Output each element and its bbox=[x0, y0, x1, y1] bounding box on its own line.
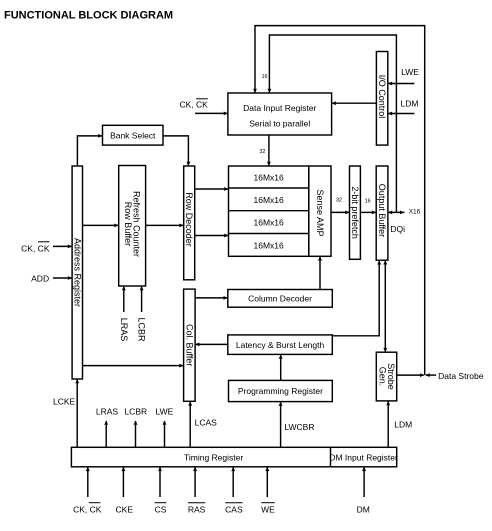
svg-text:CK, CK: CK, CK bbox=[179, 99, 208, 109]
svg-text:Serial to parallel: Serial to parallel bbox=[249, 119, 310, 129]
svg-text:LWE: LWE bbox=[156, 407, 174, 417]
svg-text:Data Strobe: Data Strobe bbox=[438, 371, 484, 381]
block Strobe Gen bbox=[376, 352, 396, 401]
wire Address Register to Col. Buffer bbox=[83, 364, 184, 368]
block Col. Buffer bbox=[184, 289, 196, 401]
wire Bank Select to Row Decoder bbox=[163, 136, 190, 166]
label WE bbox=[261, 503, 275, 515]
label CK, CK (data input clock) bbox=[179, 99, 208, 110]
wire DQi bidirectional bbox=[388, 211, 405, 215]
wire Row Decoder to array (lower) bbox=[195, 234, 229, 238]
svg-text:16: 16 bbox=[365, 199, 371, 205]
svg-text:16Mx16: 16Mx16 bbox=[254, 173, 285, 183]
svg-text:Timing Register: Timing Register bbox=[184, 453, 243, 463]
svg-text:CK, CK: CK, CK bbox=[73, 504, 102, 514]
label CK, CK (address register clock) bbox=[21, 242, 50, 254]
wire LCAS to Col. Buffer bbox=[188, 401, 192, 447]
wire Latency to Output Buffer bbox=[332, 260, 381, 336]
wire Sense AMP to 2-bit prefetch, 32-bit bbox=[331, 211, 350, 215]
wire CKE input bbox=[122, 467, 126, 497]
svg-text:CKE: CKE bbox=[116, 504, 134, 514]
block Column Decoder bbox=[228, 290, 332, 308]
svg-text:Gen.: Gen. bbox=[377, 367, 387, 387]
block Programming Register bbox=[229, 380, 333, 401]
wire ADD to Address Register bbox=[53, 276, 72, 280]
svg-text:DM: DM bbox=[357, 504, 370, 514]
wire LDM to Strobe Gen bbox=[386, 401, 390, 447]
wire outer DQ loop (Data Strobe to Data Input Register) bbox=[253, 26, 425, 375]
wire Latency to Col. Buffer bbox=[195, 343, 228, 347]
svg-text:LDM: LDM bbox=[394, 420, 412, 430]
wire Strobe Gen to Data Strobe junction bbox=[397, 373, 425, 377]
block Row Decoder bbox=[184, 166, 195, 280]
wire LDM to I/O Control bbox=[388, 112, 415, 116]
wire Data Input Register to memory array, 32-bit bbox=[267, 135, 271, 166]
wire Col. Buffer to Column Decoder bbox=[195, 296, 228, 300]
wire DM input bbox=[362, 467, 366, 497]
svg-text:Output Buffer: Output Buffer bbox=[377, 184, 387, 237]
wire LCKE to Address Register bbox=[75, 379, 79, 447]
wire Data Strobe external bbox=[425, 373, 436, 377]
svg-text:Col. Buffer: Col. Buffer bbox=[184, 324, 194, 366]
block Address Register bbox=[72, 166, 82, 379]
wire LWE to I/O Control bbox=[388, 82, 415, 86]
svg-text:X16: X16 bbox=[409, 209, 421, 216]
block memory array 16Mx16 x4 bbox=[229, 166, 309, 256]
block DM Input Register bbox=[329, 447, 398, 467]
svg-text:DM Input Register: DM Input Register bbox=[329, 453, 398, 463]
svg-text:Data Input Register: Data Input Register bbox=[243, 103, 316, 113]
block Timing Register bbox=[71, 447, 396, 467]
wire CK to Data Input Register bbox=[195, 112, 228, 116]
wire Address Register to Refresh Counter bbox=[83, 224, 119, 228]
svg-text:32: 32 bbox=[259, 149, 265, 155]
wire Column Decoder to Sense AMP bbox=[318, 256, 322, 289]
svg-text:Sense AMP: Sense AMP bbox=[315, 189, 325, 236]
svg-text:I/O Control: I/O Control bbox=[377, 75, 387, 119]
svg-text:RAS: RAS bbox=[188, 504, 206, 514]
wire CAS input bbox=[231, 467, 235, 497]
block Sense AMP bbox=[309, 166, 331, 256]
label RAS bbox=[188, 503, 206, 515]
wire LWE stub bbox=[163, 421, 167, 448]
svg-text:LRAS: LRAS bbox=[119, 318, 129, 342]
svg-text:LCKE: LCKE bbox=[53, 397, 76, 407]
svg-text:LDM: LDM bbox=[401, 99, 419, 109]
block Bank Select bbox=[103, 125, 164, 145]
svg-text:CS: CS bbox=[155, 504, 167, 514]
wire LWCBR to Programming Register bbox=[279, 402, 283, 448]
wire CS input bbox=[158, 467, 162, 497]
block 2-bit prefetch bbox=[350, 166, 361, 259]
svg-text:Column Decoder: Column Decoder bbox=[248, 294, 312, 304]
wire RAS input bbox=[193, 467, 197, 497]
wire WE input bbox=[265, 467, 269, 497]
label CAS bbox=[225, 503, 243, 515]
wire CK to Address Register bbox=[53, 245, 72, 249]
block Latency & Burst Length bbox=[228, 335, 332, 355]
svg-text:ADD: ADD bbox=[31, 274, 49, 284]
wire Programming Register to Latency bbox=[279, 354, 283, 380]
wire Address Register to Bank Select bbox=[77, 134, 102, 166]
svg-text:Latency & Burst Length: Latency & Burst Length bbox=[236, 340, 325, 350]
label CK, CK (bottom) bbox=[73, 503, 102, 515]
svg-text:16: 16 bbox=[261, 74, 267, 80]
svg-text:CAS: CAS bbox=[225, 504, 243, 514]
wire Row Decoder to array (upper) bbox=[195, 187, 229, 191]
svg-text:LCBR: LCBR bbox=[124, 407, 147, 417]
wire Refresh Counter to Row Decoder bbox=[146, 224, 184, 228]
wire LRAS stub bbox=[104, 421, 108, 448]
svg-text:Programming Register: Programming Register bbox=[238, 386, 323, 396]
svg-text:FUNCTIONAL BLOCK DIAGRAM: FUNCTIONAL BLOCK DIAGRAM bbox=[4, 10, 173, 22]
svg-text:Address Register: Address Register bbox=[72, 238, 82, 307]
block Refresh Counter / Row Buffer bbox=[119, 166, 146, 287]
wire LCBR to Refresh Counter bbox=[140, 286, 144, 312]
wire inner DQ loop (DQ pad to Data Input Register) bbox=[268, 35, 397, 212]
svg-text:LWE: LWE bbox=[401, 67, 419, 77]
wire 2-bit prefetch to Output Buffer, 16-bit bbox=[360, 211, 376, 215]
svg-text:LWCBR: LWCBR bbox=[284, 422, 314, 432]
svg-text:Row Buffer: Row Buffer bbox=[123, 202, 133, 246]
block Data Input Register bbox=[228, 93, 332, 135]
svg-text:LRAS: LRAS bbox=[96, 407, 119, 417]
svg-text:LCBR: LCBR bbox=[137, 317, 147, 342]
wire CK input bbox=[86, 467, 90, 497]
svg-text:DQi: DQi bbox=[390, 224, 405, 234]
svg-text:32: 32 bbox=[336, 198, 342, 204]
svg-text:Row Decoder: Row Decoder bbox=[184, 192, 194, 247]
wire I/O Control to Data Input Register bbox=[332, 101, 377, 105]
svg-text:2-bit prefetch: 2-bit prefetch bbox=[350, 186, 360, 239]
svg-text:WE: WE bbox=[261, 504, 275, 514]
wire LCBR stub bbox=[134, 421, 138, 448]
label CS bbox=[155, 503, 167, 515]
block Output Buffer bbox=[376, 166, 388, 260]
svg-text:16Mx16: 16Mx16 bbox=[254, 240, 285, 250]
svg-text:LCAS: LCAS bbox=[195, 417, 218, 427]
wire Output Buffer to Strobe Gen bbox=[383, 260, 387, 352]
wire LRAS to Refresh Counter bbox=[122, 286, 126, 312]
svg-text:16Mx16: 16Mx16 bbox=[254, 195, 285, 205]
block I/O Control bbox=[376, 52, 387, 146]
svg-text:16Mx16: 16Mx16 bbox=[254, 218, 285, 228]
svg-text:Bank Select: Bank Select bbox=[110, 131, 156, 141]
svg-text:CK, CK: CK, CK bbox=[21, 243, 50, 253]
